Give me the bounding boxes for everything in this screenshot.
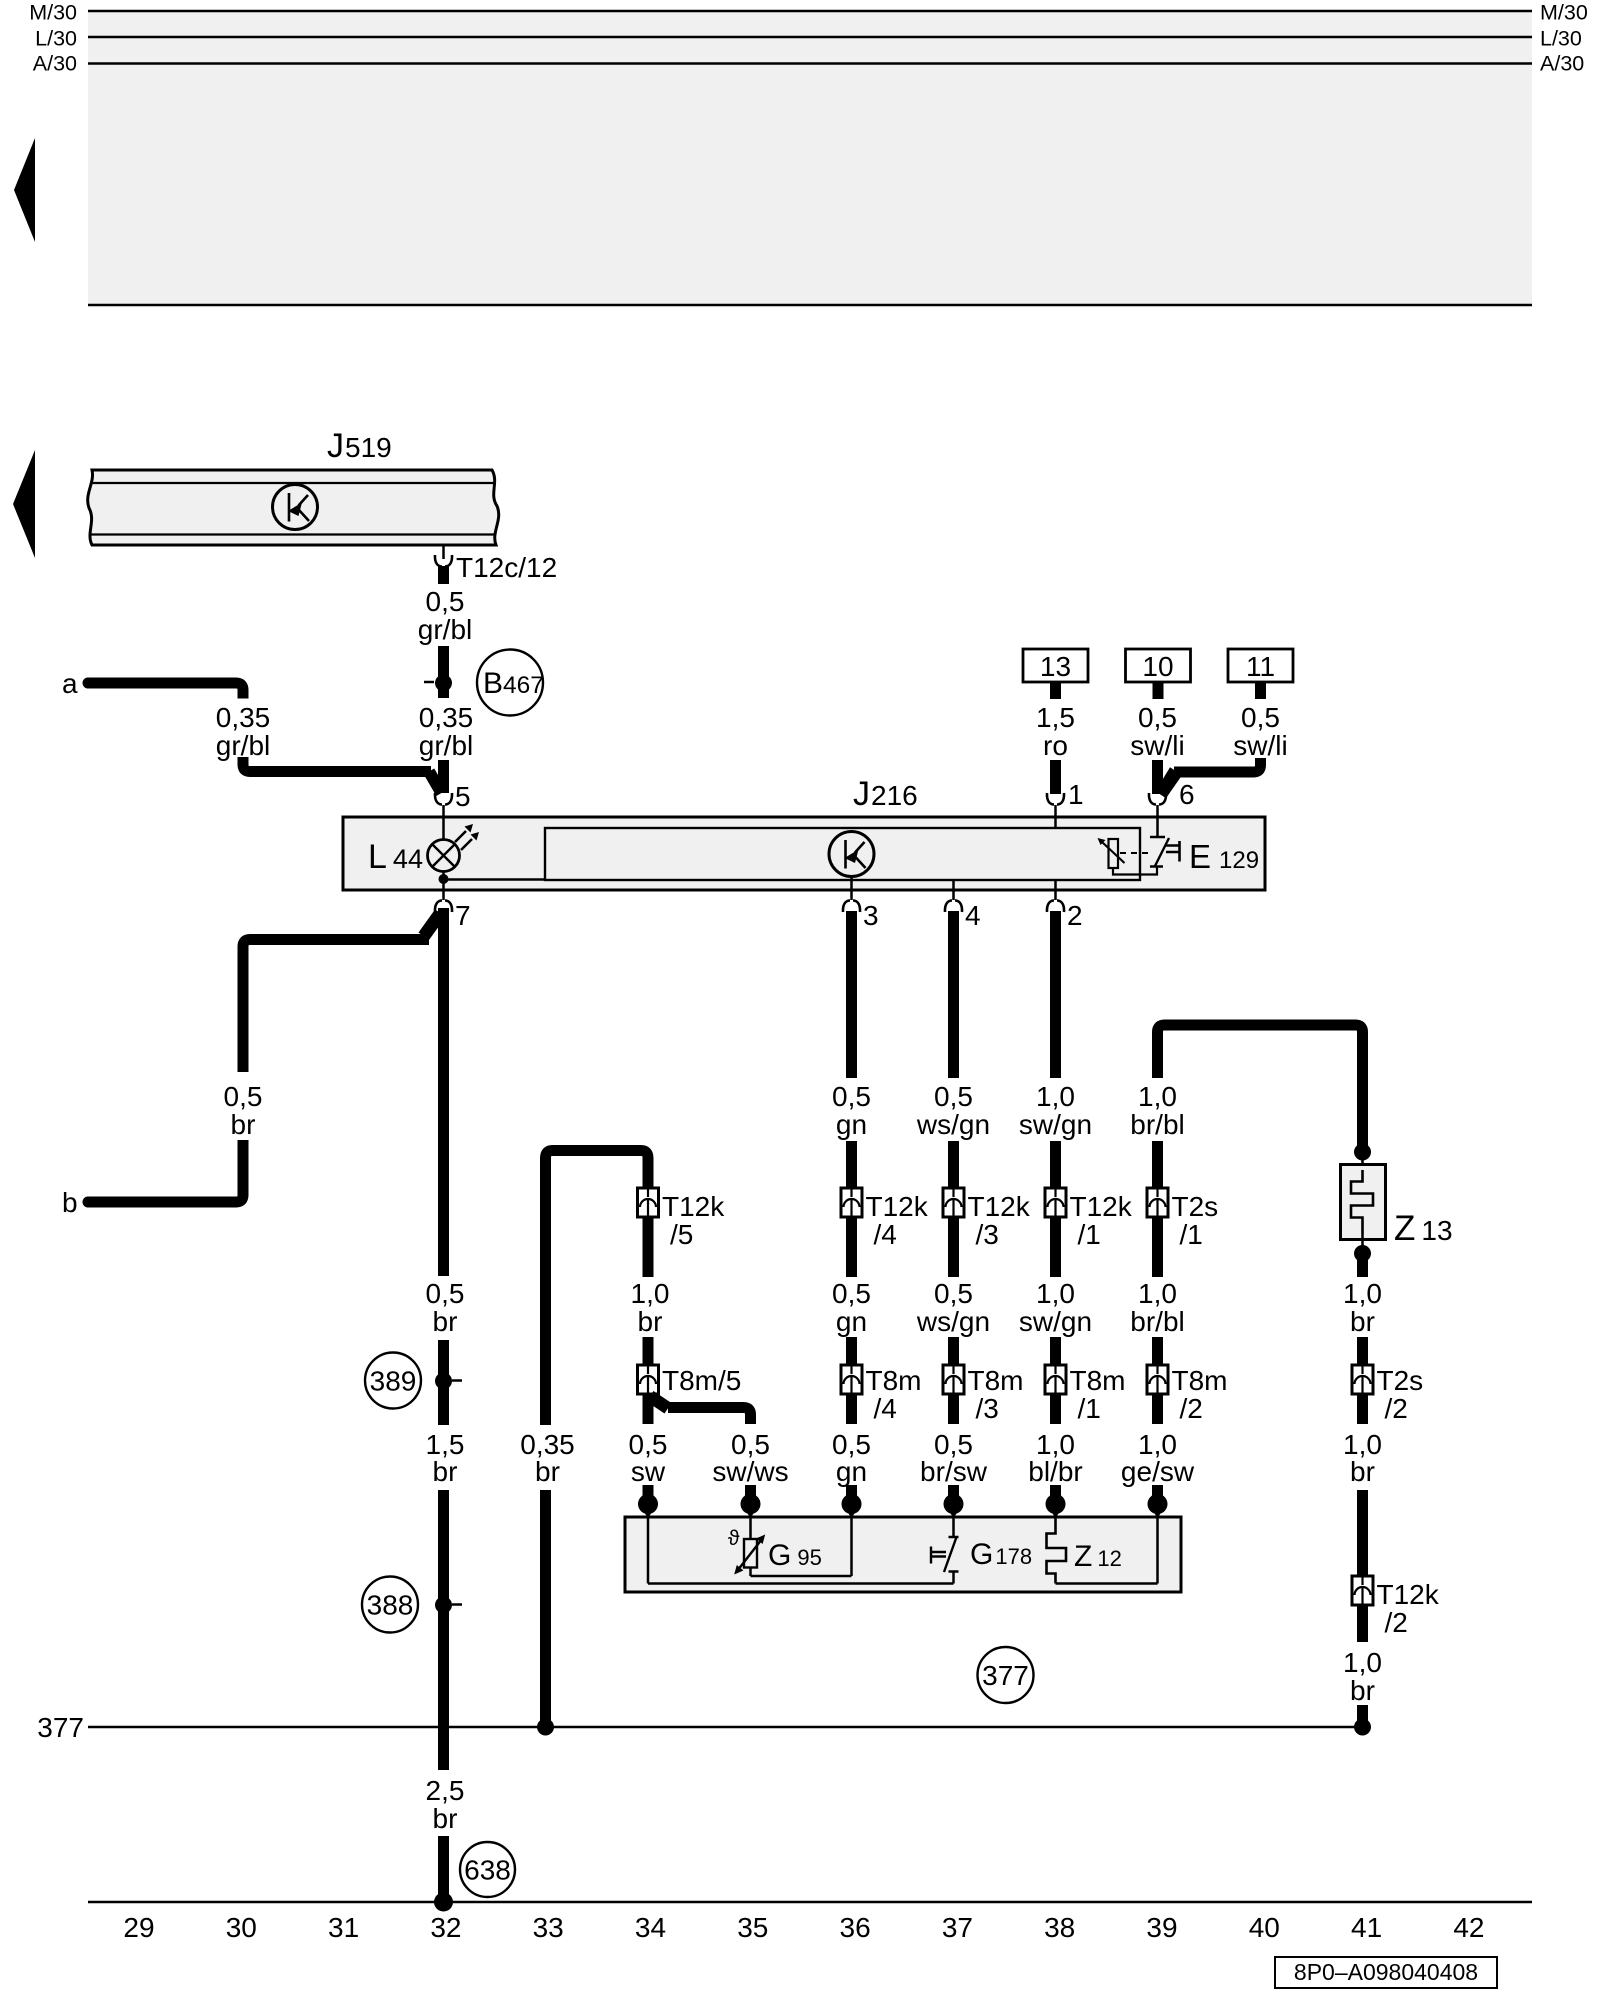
wire 0,35 br lower	[540, 1490, 551, 1722]
node Z13 top	[1354, 1144, 1371, 1161]
svg-text:sw/li: sw/li	[1130, 730, 1184, 761]
svg-text:10: 10	[1142, 651, 1173, 682]
svg-text:29: 29	[123, 1912, 154, 1943]
pin 4	[952, 880, 955, 900]
node B467 junction	[435, 675, 452, 692]
svg-text:42: 42	[1453, 1912, 1484, 1943]
terminal box 13	[1023, 649, 1088, 682]
wire into sensor box	[948, 1486, 959, 1499]
svg-text:38: 38	[1044, 1912, 1075, 1943]
svg-text:L/30: L/30	[35, 27, 77, 51]
node 388 circle	[362, 1577, 418, 1633]
svg-text:T8m: T8m	[1172, 1365, 1228, 1396]
svg-text:sw/ws: sw/ws	[712, 1456, 788, 1487]
wire stub below box 11	[1255, 682, 1266, 699]
svg-text:br: br	[433, 1803, 458, 1834]
pin 1	[1047, 793, 1064, 805]
wire M/30 rail	[88, 10, 1532, 13]
svg-text:36: 36	[840, 1912, 871, 1943]
connector T12k/1	[1045, 1188, 1066, 1217]
wire main resume	[438, 1340, 449, 1425]
label 0,5 ws/gn	[948, 1217, 959, 1277]
svg-text:gr/bl: gr/bl	[216, 730, 270, 761]
svg-text:ϑ: ϑ	[728, 1527, 740, 1550]
svg-text:A/30: A/30	[1540, 52, 1584, 76]
wire from pin 7 down	[438, 908, 449, 1276]
svg-text:389: 389	[370, 1366, 417, 1397]
wire a branch lower	[243, 757, 431, 772]
svg-text:30: 30	[226, 1912, 257, 1943]
svg-text:gn: gn	[836, 1456, 867, 1487]
svg-text:T8m/5: T8m/5	[662, 1365, 741, 1396]
label 0,5 br/sw	[948, 1394, 959, 1424]
J216 instrument symbol	[829, 832, 874, 877]
svg-text:/5: /5	[670, 1219, 693, 1250]
svg-text:1,0: 1,0	[1036, 1278, 1075, 1309]
node junction Z13 wire on 377 rail	[1354, 1719, 1371, 1736]
node B467 circle	[477, 650, 543, 716]
E129 dimmer rheostat	[1109, 839, 1119, 868]
pin 3	[850, 876, 853, 900]
wire b-branch horizontal	[243, 940, 429, 1073]
svg-text:377: 377	[37, 1712, 84, 1743]
svg-text:33: 33	[533, 1912, 564, 1943]
wire column x=851.5 from J216	[846, 911, 857, 1078]
label 1,0 sw/gn	[1050, 1217, 1061, 1277]
svg-text:br: br	[1350, 1306, 1375, 1337]
wire main to ground	[438, 1836, 449, 1900]
svg-text:0,5: 0,5	[832, 1278, 871, 1309]
svg-text:T12k: T12k	[662, 1191, 725, 1222]
node ground 638	[434, 1893, 453, 1912]
svg-text:T12k: T12k	[1377, 1579, 1440, 1610]
connector T12k/3	[943, 1188, 964, 1217]
svg-text:/1: /1	[1078, 1393, 1101, 1424]
svg-text:388: 388	[367, 1590, 414, 1621]
node 389 circle	[365, 1353, 421, 1409]
label 1,0 br bottom	[1357, 1605, 1368, 1642]
wire diagonal pin7 to b-branch	[419, 910, 447, 941]
J519 inner bottom line	[90, 533, 495, 535]
svg-text:37: 37	[942, 1912, 973, 1943]
svg-text:/2: /2	[1385, 1607, 1408, 1638]
svg-text:6: 6	[1179, 779, 1195, 810]
wire a horizontal	[83, 678, 94, 689]
svg-text:2,5: 2,5	[426, 1775, 465, 1806]
svg-text:0,5: 0,5	[426, 1278, 465, 1309]
svg-text:40: 40	[1249, 1912, 1280, 1943]
wire stub below box 10	[1153, 682, 1164, 699]
label 1,0 ge/sw	[1152, 1394, 1163, 1424]
svg-text:/2: /2	[1180, 1393, 1203, 1424]
terminal box 10	[1126, 649, 1191, 682]
node Z13 bottom	[1361, 1234, 1364, 1253]
svg-text:T2s: T2s	[1377, 1365, 1424, 1396]
wire column x=953.5 from J216	[948, 911, 959, 1078]
sender G95 internal wiring	[647, 1517, 650, 1584]
connector T2s/1	[1147, 1188, 1168, 1217]
svg-text:br: br	[433, 1306, 458, 1337]
svg-text:T12c/12: T12c/12	[456, 552, 557, 583]
wire main to 388	[438, 1490, 449, 1770]
page-edge arrow upper	[14, 138, 35, 242]
svg-text:br: br	[1350, 1456, 1375, 1487]
svg-text:gn: gn	[836, 1109, 867, 1140]
svg-text:1: 1	[1068, 779, 1084, 810]
node below lamp	[442, 872, 445, 880]
Z12 return wire inside box	[1056, 1582, 1158, 1585]
wire stub below box 13	[1050, 682, 1061, 699]
band bottom edge	[88, 304, 1532, 307]
svg-text:T12k: T12k	[1070, 1191, 1133, 1222]
svg-text:31: 31	[328, 1912, 359, 1943]
svg-text:b: b	[62, 1187, 78, 1218]
svg-text:0,5: 0,5	[426, 586, 465, 617]
wire into sensor box	[1050, 1486, 1061, 1499]
connector T12k/2	[1352, 1576, 1373, 1605]
connector T8m/2	[1147, 1365, 1168, 1394]
svg-text:/1: /1	[1180, 1219, 1203, 1250]
svg-text:T8m: T8m	[1070, 1365, 1126, 1396]
svg-text:T8m: T8m	[968, 1365, 1024, 1396]
connector T12k/5	[638, 1188, 659, 1217]
svg-text:Z13: Z13	[1394, 1209, 1453, 1248]
svg-text:a: a	[62, 668, 78, 699]
svg-text:/4: /4	[874, 1219, 897, 1250]
svg-text:A/30: A/30	[33, 52, 77, 76]
wire 377 rail	[88, 1726, 1363, 1729]
svg-text:/1: /1	[1078, 1219, 1101, 1250]
svg-text:1,5: 1,5	[1036, 702, 1075, 733]
label 1,0 bl/br	[1050, 1394, 1061, 1424]
heater element Z12 symbol	[1047, 1517, 1067, 1584]
sensor G178 symbol	[952, 1517, 955, 1537]
heater element Z13	[1341, 1165, 1386, 1240]
svg-text:0,5: 0,5	[934, 1278, 973, 1309]
wire column x=1055.5 from J216	[1050, 911, 1061, 1078]
node 377 circle	[978, 1647, 1034, 1703]
wire from J519 to T12c/12	[442, 545, 445, 559]
svg-text:2: 2	[1067, 900, 1083, 931]
svg-text:1,0: 1,0	[1036, 1081, 1075, 1112]
svg-text:L44: L44	[368, 838, 423, 876]
power-rail band 30	[88, 11, 1532, 305]
svg-text:39: 39	[1146, 1912, 1177, 1943]
ground rail	[88, 1901, 1532, 1904]
svg-text:11: 11	[1246, 651, 1275, 682]
wire col35 into box	[745, 1486, 756, 1499]
J216 inner box	[545, 828, 1140, 880]
pin 7	[442, 883, 445, 900]
connector T8m/4	[841, 1365, 862, 1394]
connector T2s/2	[1352, 1365, 1373, 1394]
svg-text:br: br	[433, 1456, 458, 1487]
svg-text:M/30: M/30	[1540, 1, 1588, 25]
svg-text:ws/gn: ws/gn	[916, 1306, 990, 1337]
svg-text:J216: J216	[853, 775, 918, 813]
svg-text:0,5: 0,5	[224, 1081, 263, 1112]
wire into sensor box	[846, 1486, 857, 1499]
wire 0,5 sw	[643, 1394, 654, 1424]
L44 indicator arrows	[455, 831, 466, 842]
wire to T12k/2	[1357, 1490, 1368, 1576]
svg-text:0,35: 0,35	[216, 702, 271, 733]
svg-text:3: 3	[863, 900, 879, 931]
node junction on 377 rail	[537, 1719, 554, 1736]
svg-text:br/bl: br/bl	[1130, 1306, 1184, 1337]
pin 6	[1149, 793, 1166, 805]
svg-text:ge/sw: ge/sw	[1121, 1456, 1195, 1487]
J519 instrument symbol	[273, 485, 318, 530]
label 1,0 br lower	[1357, 1394, 1368, 1424]
wire diagonal into pin 5	[424, 769, 447, 797]
svg-text:T8m: T8m	[866, 1365, 922, 1396]
wire 1,0 br (Z13 down)	[1357, 1258, 1368, 1277]
svg-text:br: br	[535, 1456, 560, 1487]
control unit J216 box	[343, 817, 1265, 890]
wire branch to 0,5 sw/ws	[647, 1391, 672, 1414]
pin 5	[435, 793, 452, 805]
svg-text:br: br	[231, 1109, 256, 1140]
svg-text:T12k: T12k	[866, 1191, 929, 1222]
svg-text:1,0: 1,0	[1138, 1081, 1177, 1112]
page-edge arrow lower (J519 row)	[13, 450, 35, 558]
svg-text:0,5: 0,5	[832, 1081, 871, 1112]
connector T8m/3	[943, 1365, 964, 1394]
svg-text:L/30: L/30	[1540, 27, 1582, 51]
control module J519 box	[88, 470, 499, 545]
svg-text:0,5: 0,5	[1241, 702, 1280, 733]
node 389 junction	[435, 1373, 452, 1390]
connector T8m/1	[1045, 1365, 1066, 1394]
pin 2	[1054, 880, 1057, 900]
svg-text:8P0–A098040408: 8P0–A098040408	[1294, 1959, 1478, 1985]
wire 0,35 gr/bl (B467 to pin 5)	[438, 683, 449, 698]
connector T12k/4	[841, 1188, 862, 1217]
svg-text:ws/gn: ws/gn	[916, 1109, 990, 1140]
svg-text:34: 34	[635, 1912, 666, 1943]
wire br/bl elbow to Z13	[1158, 1025, 1363, 1146]
svg-text:br/sw: br/sw	[920, 1456, 988, 1487]
sender unit box (G95/G178/Z12)	[625, 1517, 1181, 1592]
connector T12c/12	[435, 555, 452, 567]
svg-text:br/bl: br/bl	[1130, 1109, 1184, 1140]
svg-text:5: 5	[455, 781, 471, 812]
svg-text:ro: ro	[1043, 730, 1068, 761]
svg-text:0,35: 0,35	[419, 702, 474, 733]
svg-text:sw/li: sw/li	[1233, 730, 1287, 761]
svg-text:gr/bl: gr/bl	[418, 614, 472, 645]
sender G95 symbol	[749, 1517, 752, 1539]
svg-text:/3: /3	[976, 1393, 999, 1424]
node 388 junction	[435, 1597, 452, 1614]
svg-text:1,0: 1,0	[1343, 1278, 1382, 1309]
wire L/30 rail	[88, 36, 1532, 39]
label 0,5 gn	[846, 1394, 857, 1424]
svg-text:br: br	[638, 1306, 663, 1337]
svg-text:bl/br: bl/br	[1028, 1456, 1082, 1487]
svg-text:41: 41	[1351, 1912, 1382, 1943]
label 1,0 br/bl lower	[1152, 1217, 1163, 1277]
switch E129 symbol	[1150, 836, 1165, 839]
svg-text:638: 638	[464, 1855, 511, 1886]
svg-text:0,5: 0,5	[934, 1081, 973, 1112]
svg-text:gn: gn	[836, 1306, 867, 1337]
svg-text:1,0: 1,0	[1343, 1647, 1382, 1678]
wire to 377 rail	[1357, 1705, 1368, 1722]
J519 inner top line	[90, 482, 494, 484]
svg-text:4: 4	[965, 900, 981, 931]
lamp L44	[428, 840, 460, 872]
svg-text:T12k: T12k	[968, 1191, 1031, 1222]
svg-text:35: 35	[737, 1912, 768, 1943]
svg-text:1,0: 1,0	[1138, 1278, 1177, 1309]
svg-text:J519: J519	[327, 427, 392, 465]
svg-text:sw: sw	[631, 1456, 666, 1487]
svg-text:br: br	[1350, 1675, 1375, 1706]
svg-text:gr/bl: gr/bl	[419, 730, 473, 761]
svg-text:1,0: 1,0	[631, 1278, 670, 1309]
svg-text:377: 377	[982, 1660, 1029, 1691]
wire col39 into sensor box	[1152, 1486, 1163, 1499]
wire col34 into box	[643, 1486, 654, 1499]
svg-text:sw/gn: sw/gn	[1019, 1306, 1092, 1337]
svg-text:T2s: T2s	[1172, 1191, 1219, 1222]
svg-text:7: 7	[455, 900, 471, 931]
wire 0,35 br elbow top	[546, 1151, 649, 1426]
svg-text:M/30: M/30	[29, 1, 77, 25]
node 638 circle	[460, 1842, 515, 1897]
connector T8m/5	[638, 1365, 659, 1394]
wire b-branch lower	[83, 1197, 94, 1208]
wire 1,0 br	[643, 1217, 654, 1277]
svg-text:/4: /4	[874, 1393, 897, 1424]
svg-text:0,5: 0,5	[1138, 702, 1177, 733]
svg-text:sw/gn: sw/gn	[1019, 1109, 1092, 1140]
svg-text:B467: B467	[483, 667, 544, 700]
terminal box 11	[1228, 649, 1293, 682]
svg-text:32: 32	[430, 1912, 461, 1943]
diagram id box	[1275, 1957, 1497, 1988]
svg-text:/2: /2	[1385, 1393, 1408, 1424]
label 0,5 gn	[846, 1217, 857, 1277]
svg-text:13: 13	[1040, 651, 1071, 682]
wire A/30 rail	[88, 62, 1532, 65]
svg-text:/3: /3	[976, 1219, 999, 1250]
